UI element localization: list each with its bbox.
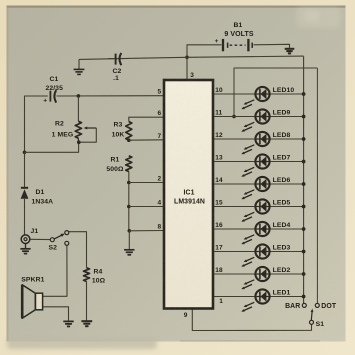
ground R-chain pin8 <box>124 250 134 255</box>
wire LED9 anode to rail <box>270 116 304 118</box>
wire R2 bottom to left rail <box>25 142 79 152</box>
node A junction V+ <box>185 56 189 60</box>
wire IC pin to LED2 <box>213 273 255 275</box>
wire R4 to ground <box>86 281 88 320</box>
jack J1 <box>21 235 30 244</box>
wire IC pin to LED9 <box>213 116 255 118</box>
junction pin 4 <box>127 205 131 209</box>
switch S1 <box>310 309 314 325</box>
resistor R4 <box>84 268 90 282</box>
battery B1 <box>215 38 253 51</box>
wire IC pin to LED5 <box>213 206 255 208</box>
junction left rail to R2 bottom wire <box>23 151 27 155</box>
capacitor C1 <box>43 90 56 105</box>
junction LED5 rail <box>302 205 306 209</box>
LED5 <box>241 199 270 221</box>
wire IC pin to LED8 <box>213 138 255 140</box>
wire IC pin 6 to R3 <box>129 117 164 121</box>
wire pin 2 <box>129 182 164 184</box>
wire S2 upper contact to R4 <box>69 232 87 268</box>
wire pin 8 <box>129 230 164 232</box>
wire R2 top lead <box>77 96 79 121</box>
wire C2 ground drop <box>78 59 80 68</box>
LED3 <box>241 244 270 266</box>
wire D1 to J1 <box>24 199 26 235</box>
wire battery negative to ground <box>254 44 290 48</box>
wire LED6 anode to rail <box>270 183 304 185</box>
wire LED1 anode to rail <box>270 296 304 298</box>
terminal DOT <box>315 303 319 307</box>
junction LED1 rail <box>302 295 306 299</box>
wire LED2 anode to rail <box>270 273 304 275</box>
capacitor C2 <box>108 53 125 65</box>
LED1 <box>241 289 270 311</box>
wire DOT branch horizontal <box>234 68 317 117</box>
wire IC pin to LED6 <box>213 183 255 185</box>
wire pin 7 <box>129 139 164 141</box>
wire IC pin to LED4 <box>213 228 255 230</box>
wire V+ down to IC pin 3 <box>186 57 188 80</box>
LED6 <box>241 177 270 199</box>
junction R2 top on pin5 wire <box>77 94 81 98</box>
wire LED3 anode to rail <box>270 251 304 253</box>
wire pin 4 <box>129 206 164 208</box>
wire pin 5 signal line <box>25 96 48 152</box>
junction LED6 rail <box>302 182 306 186</box>
junction LED10 rail <box>302 92 306 96</box>
junction LED4 rail <box>302 227 306 231</box>
wire DOT rail vertical <box>316 68 318 303</box>
terminal BAR <box>302 303 306 307</box>
wire LED10 anode to rail <box>270 93 304 95</box>
LED9 <box>241 109 270 131</box>
junction LED9 rail <box>302 115 306 119</box>
wire LED8 anode to rail <box>270 138 304 140</box>
speaker SPKR1 <box>22 285 42 319</box>
ground C2 left <box>74 69 85 74</box>
resistor R1 <box>126 156 132 172</box>
LED2 <box>241 267 270 289</box>
wire battery positive to node A <box>187 45 222 58</box>
junction DOT branch to pin 11 wire <box>232 115 236 119</box>
LED7 <box>241 154 270 176</box>
junction LED7 rail <box>302 160 306 164</box>
junction pin 8 <box>128 229 132 233</box>
LED8 <box>241 132 270 154</box>
ground speaker <box>63 321 73 326</box>
resistor R3 <box>126 122 132 141</box>
wire pin8 junction to ground <box>128 231 130 250</box>
LED4 <box>241 222 270 244</box>
diode D1 <box>21 188 29 199</box>
IC U1 LM3914N body <box>164 80 213 309</box>
wire IC pin to LED10 <box>213 93 255 95</box>
ground R4 <box>81 321 92 326</box>
switch S2 <box>50 231 69 246</box>
junction LED8 rail <box>302 137 306 141</box>
wire R1 bottom lead <box>128 172 130 231</box>
junction pin 2 <box>127 181 131 185</box>
wire LED7 anode to rail <box>270 161 304 163</box>
wire IC pin to LED3 <box>213 251 255 253</box>
potentiometer R2 <box>75 121 96 144</box>
wire speaker bottom to ground <box>43 307 69 321</box>
wire S2 lower contact to speaker top <box>43 245 67 296</box>
wire IC pin 9 to S1 <box>192 309 311 331</box>
junction LED2 rail <box>302 272 306 276</box>
wire V+ bus horizontal <box>79 56 304 59</box>
wire anode rail (BAR) <box>303 56 305 303</box>
ground battery negative <box>285 49 295 54</box>
wire LED4 anode to rail <box>270 228 304 230</box>
ground J1 <box>20 244 30 254</box>
LED10 <box>241 87 270 109</box>
wire IC pin to LED1 <box>213 296 255 298</box>
wire J1 to S2 <box>30 238 50 240</box>
wire IC pin to LED7 <box>213 161 255 163</box>
junction R3 R1 pin 7 <box>127 138 131 142</box>
junction LED3 rail <box>302 250 306 254</box>
wire left rail down to D1 <box>24 152 26 187</box>
wire LED5 anode to rail <box>270 206 304 208</box>
